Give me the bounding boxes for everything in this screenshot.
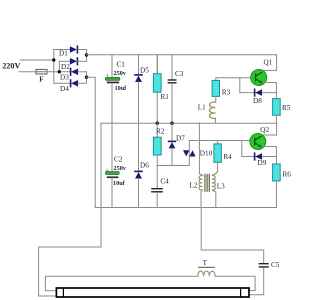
wire 220V neutral to fuse <box>19 71 36 73</box>
svg-text:10uf: 10uf <box>115 85 128 92</box>
diode D5 <box>135 67 149 82</box>
wire D2 anode <box>59 60 70 62</box>
svg-text:R6: R6 <box>283 171 292 179</box>
wire D6 bottom <box>138 179 140 208</box>
wire R6 bottom to bottom rail <box>275 181 277 208</box>
wire D8 line <box>240 92 277 94</box>
wire bottom rail <box>95 207 276 209</box>
inductor T ballast choke <box>198 259 215 277</box>
wire R2 C4 D7 diac joining line <box>157 165 189 167</box>
wire Q2 collector from mid rail <box>263 123 277 135</box>
svg-text:D3: D3 <box>60 73 69 81</box>
svg-text:D5: D5 <box>140 67 149 75</box>
svg-text:F: F <box>39 75 43 83</box>
node AC2 junction <box>58 70 61 73</box>
diode D1 <box>59 46 77 57</box>
svg-text:R5: R5 <box>282 104 291 112</box>
fuse F <box>36 69 47 83</box>
wire bridge left AC2 vertical <box>58 61 60 72</box>
svg-text:D9: D9 <box>258 159 267 167</box>
svg-text:C5: C5 <box>271 261 280 269</box>
capacitor C4 <box>151 178 169 193</box>
wire Q1 collector from rail <box>259 55 277 71</box>
svg-text:D8: D8 <box>253 97 262 105</box>
diode D3 <box>60 69 78 82</box>
node mid rail R branch <box>156 122 159 125</box>
svg-text:C1: C1 <box>117 61 126 69</box>
wire C1 top <box>111 55 113 78</box>
capacitor C5 <box>259 261 280 269</box>
svg-text:D6: D6 <box>140 162 149 170</box>
wire R4 top <box>217 141 219 144</box>
diode D4 <box>60 80 78 93</box>
wire mid rail left end down to lamp <box>39 123 101 296</box>
inductor L3 winding <box>212 174 225 193</box>
wire bridge plus vertical <box>86 50 88 62</box>
wire D7 top <box>171 123 173 141</box>
wire C3 top <box>171 55 173 80</box>
wire C3 bottom to mid rail <box>171 84 173 123</box>
svg-text:C2: C2 <box>114 156 123 164</box>
svg-text:D2: D2 <box>61 63 70 71</box>
wire R4 bottom to L3 top <box>216 162 218 173</box>
resistor R6 <box>273 164 292 181</box>
svg-text:D10: D10 <box>200 149 213 157</box>
wire C5 bottom to tube right <box>249 268 264 295</box>
wire mid rail <box>101 122 277 124</box>
wire D3 anode <box>78 71 86 73</box>
wire D7 bottom <box>171 148 173 165</box>
resistor R1 <box>153 74 169 101</box>
wire bottom rail down to C5 <box>201 208 264 264</box>
wire bridge minus down to bottom rail <box>87 77 96 207</box>
wire Q1 base line <box>216 78 251 81</box>
inductor L2 winding <box>190 174 203 193</box>
transistor Q1 <box>251 59 273 86</box>
wire bridge left AC1 vertical <box>53 50 55 84</box>
wire D1 cathode <box>78 49 87 51</box>
wire top rail <box>87 54 277 56</box>
wire R2 bottom <box>156 155 158 166</box>
capacitor C1 electrolytic <box>105 61 127 92</box>
wire D5 top <box>138 55 140 75</box>
wire C2 bottom <box>111 178 113 207</box>
svg-text:R3: R3 <box>222 88 231 96</box>
svg-text:10uf: 10uf <box>113 180 126 187</box>
resistor R2 <box>153 127 164 155</box>
wire L3 bottom to bottom rail <box>215 192 217 208</box>
lamp fluorescent tube <box>56 288 249 297</box>
svg-text:C3: C3 <box>175 70 184 78</box>
wire bridge minus vertical <box>86 72 88 84</box>
svg-text:L2: L2 <box>190 182 198 190</box>
wire Q2 base line <box>189 140 250 142</box>
diode D2 <box>61 58 77 71</box>
diac trigger <box>183 141 196 166</box>
diode D9 <box>255 153 267 167</box>
resistor R4 <box>214 144 232 162</box>
resistor R3 <box>212 80 230 96</box>
node mid rail C3-D7 branch <box>170 122 173 125</box>
wire D9 line <box>242 156 277 158</box>
svg-text:L3: L3 <box>217 182 225 190</box>
svg-text:250v: 250v <box>114 70 127 77</box>
svg-text:Q1: Q1 <box>264 59 273 67</box>
wire D4 anode <box>78 82 86 84</box>
wire D9 anode vertical <box>241 141 243 157</box>
wire R2 top <box>156 123 158 137</box>
diode D8 <box>253 89 262 105</box>
wire R1 top <box>156 55 158 74</box>
wire C4 top <box>156 166 158 189</box>
wire C1 bottom to mid rail <box>111 83 113 123</box>
wire T to tube right top pin <box>215 276 255 290</box>
capacitor C2 electrolytic <box>105 156 127 187</box>
wire 220V live top <box>20 59 54 61</box>
svg-text:R2: R2 <box>156 127 165 135</box>
svg-text:Q2: Q2 <box>260 126 269 134</box>
wire L2 bottom to bottom rail <box>200 192 202 208</box>
svg-text:220V: 220V <box>2 61 20 70</box>
transformer L2 L3 core <box>205 174 209 191</box>
inductor L1 <box>198 102 216 118</box>
wire D4 cathode <box>54 82 71 84</box>
wire mid rail to L2 top <box>198 123 200 174</box>
transistor Q2 <box>250 126 270 150</box>
node AC1 junction <box>52 58 55 61</box>
svg-text:R4: R4 <box>223 153 232 161</box>
wire D2 cathode <box>78 60 87 62</box>
node bridge plus <box>85 53 88 56</box>
wire R1 bottom to mid rail <box>156 92 158 123</box>
wire D1 anode <box>54 49 70 51</box>
diode D6 <box>135 162 149 179</box>
wire D8 anode vertical <box>239 78 241 93</box>
svg-text:D4: D4 <box>60 85 69 93</box>
diode D7 <box>169 135 186 149</box>
wire Q1 emitter <box>263 83 277 99</box>
wire fuse to bridge <box>47 71 70 73</box>
wire C4 bottom <box>156 193 158 208</box>
wire D6 top <box>138 123 140 171</box>
svg-text:T: T <box>203 259 208 267</box>
wire L1 bottom to mid rail <box>215 118 217 123</box>
wire D5 bottom to mid rail <box>138 82 140 123</box>
svg-text:L1: L1 <box>198 103 206 111</box>
node bridge minus <box>85 76 88 79</box>
svg-text:D7: D7 <box>176 135 185 143</box>
wire R3 bottom to L1 <box>215 96 217 102</box>
svg-text:D1: D1 <box>59 50 68 58</box>
svg-text:C4: C4 <box>160 178 169 186</box>
wire C2 top <box>111 123 113 172</box>
resistor R5 <box>273 99 291 116</box>
capacitor C3 <box>168 70 184 84</box>
wire R5 bottom to mid rail <box>275 115 277 123</box>
wire lamp left top pin <box>45 276 197 290</box>
wire Q2 emitter <box>263 147 277 164</box>
svg-text:R1: R1 <box>161 93 170 101</box>
